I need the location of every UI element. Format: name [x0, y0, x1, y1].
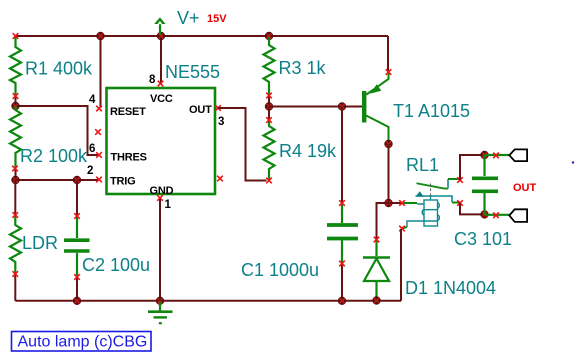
wire rail drop to pin4 RESET: [100, 36, 102, 108]
svg-text:R1 400k: R1 400k: [25, 59, 93, 79]
resistor R4: [264, 107, 275, 181]
svg-text:6: 6: [89, 143, 95, 155]
relay RL1 coil: [407, 197, 439, 228]
node rail/RESET drop: [96, 32, 104, 40]
transistor Q1 T1 A1015: [362, 73, 389, 141]
svg-text:GND: GND: [150, 185, 174, 197]
wire C3 top node to connector: [485, 154, 510, 156]
svg-text:THRES: THRES: [111, 152, 147, 164]
capacitor C3: [472, 155, 498, 214]
svg-text:1: 1: [165, 199, 172, 211]
node TRIG junction: [11, 176, 19, 184]
pin 7 (unlabeled): [95, 129, 101, 135]
pin 3 OUT: [215, 105, 221, 111]
svg-text:V+: V+: [177, 8, 200, 28]
node C3 bottom: [480, 210, 488, 218]
connector top OUT: [509, 149, 527, 161]
power V+ symbol: [154, 17, 165, 35]
svg-text:T1 A1015: T1 A1015: [393, 101, 470, 121]
wire THRES: junction to pin 6: [16, 106, 99, 155]
wire V+ drop to pin8 VCC: [160, 36, 162, 84]
capacitor C1: [327, 107, 358, 301]
node base/C1 junction: [338, 102, 346, 110]
svg-text:LDR: LDR: [22, 233, 58, 253]
svg-text:C2 100u: C2 100u: [82, 255, 150, 275]
resistor LDR: [10, 180, 21, 301]
pin 1 GND: [157, 195, 163, 201]
node C3 top: [480, 151, 488, 159]
wire relay contact bottom to C3 bottom node: [460, 203, 485, 214]
node R1/R2 junction: [11, 102, 19, 110]
wire to relay coil top pin: [389, 202, 402, 204]
svg-text:15V: 15V: [207, 13, 227, 25]
wire relay contact top to C3 top node: [460, 155, 485, 180]
wire relay coil bottom to rail: [402, 227, 407, 229]
wire to D1: [377, 203, 389, 240]
svg-text:RL1: RL1: [406, 155, 439, 175]
svg-text:R4 19k: R4 19k: [279, 141, 337, 161]
svg-text:Auto lamp (c)CBG: Auto lamp (c)CBG: [18, 334, 148, 351]
wire OUT pin3 to R4 bottom: [218, 108, 267, 181]
svg-text:D1 1N4004: D1 1N4004: [405, 278, 496, 298]
capacitor C2: [64, 180, 90, 301]
wire top V+ rail: [16, 35, 389, 37]
node C2 bottom: [73, 297, 81, 305]
svg-text:R2 100k: R2 100k: [20, 146, 88, 166]
node R3/R4/base junction: [265, 102, 273, 110]
node R3 top rail: [265, 32, 273, 40]
stray blue dot: [572, 161, 574, 163]
svg-text:4: 4: [89, 94, 96, 106]
resistor R3: [264, 37, 275, 107]
node rail/V+: [157, 32, 165, 40]
node ground junction: [156, 297, 164, 305]
svg-text:2: 2: [87, 165, 93, 177]
svg-text:VCC: VCC: [150, 93, 173, 105]
svg-text:R3 1k: R3 1k: [279, 58, 327, 78]
svg-text:8: 8: [149, 74, 156, 86]
resistor R1: [10, 37, 21, 106]
node D1 bottom: [372, 296, 380, 304]
pin 2 TRIG: [96, 177, 102, 183]
wire C3 bottom node to connector: [485, 214, 510, 216]
node C1 bottom: [338, 297, 346, 305]
connector bottom OUT: [509, 209, 527, 222]
svg-text:C3 101: C3 101: [454, 229, 512, 249]
pin 5 (unlabeled): [217, 176, 223, 182]
ground: [148, 302, 173, 323]
wire base node: [269, 106, 362, 108]
diode D1: [363, 240, 390, 301]
relay RL1 armature and contact: [416, 179, 461, 203]
title box Auto lamp (c)CBG: [12, 332, 152, 352]
svg-text:NE555: NE555: [165, 62, 220, 82]
node relay branch: [384, 199, 392, 207]
resistor R2: [10, 106, 21, 180]
op-amp U1 NE555 box: [107, 88, 216, 194]
svg-text:C1 1000u: C1 1000u: [241, 260, 319, 280]
wire bottom ground rail: [15, 300, 401, 302]
svg-text:RESET: RESET: [110, 106, 146, 118]
svg-text:TRIG: TRIG: [110, 176, 135, 188]
svg-text:3: 3: [218, 116, 224, 128]
pin 4 RESET: [96, 106, 102, 112]
node C2 top junction: [73, 176, 81, 184]
pin 8 VCC: [158, 81, 164, 87]
pin 6 THRES: [96, 152, 102, 158]
wire pin1 GND to rail: [159, 199, 161, 301]
wire rail right drop to T1 emitter: [387, 36, 389, 71]
svg-text:OUT: OUT: [513, 182, 537, 194]
svg-text:OUT: OUT: [189, 104, 212, 116]
wire collector down: [388, 144, 390, 203]
node collector junction: [384, 140, 392, 148]
wire TRIG to pin 2: [16, 179, 99, 181]
